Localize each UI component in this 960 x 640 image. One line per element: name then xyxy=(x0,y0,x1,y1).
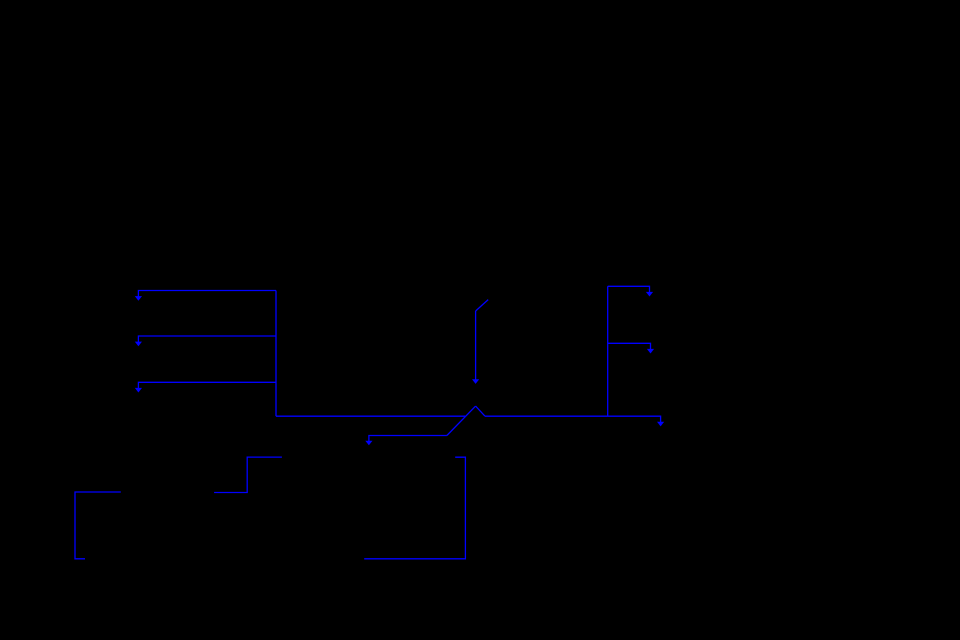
wire right branch 1 xyxy=(608,286,650,292)
arrowhead middle vertical xyxy=(472,379,479,384)
wire hump right leg xyxy=(476,406,485,416)
wire bottom trunk right xyxy=(485,416,661,422)
wire right trunk vertical xyxy=(607,286,609,416)
wire sub branch xyxy=(369,436,447,442)
wire right branch 2 xyxy=(608,343,651,349)
wire bottom trunk left xyxy=(276,415,465,417)
wire left branch 2 xyxy=(138,336,276,342)
arrowhead left branch 1 xyxy=(135,296,142,301)
wire middle vertical xyxy=(475,311,477,380)
arrowhead left branch 2 xyxy=(135,342,142,347)
wire rising diagonal xyxy=(447,406,476,435)
wire left trunk vertical xyxy=(275,291,277,417)
wire staircase xyxy=(214,457,282,492)
wire middle diagonal stub xyxy=(476,300,489,311)
arrowhead right branch 1 xyxy=(646,292,653,297)
arrowhead bottom trunk right xyxy=(657,422,664,427)
arrowhead left branch 3 xyxy=(135,388,142,393)
wire left branch 3 xyxy=(138,382,276,388)
arrowhead sub branch xyxy=(365,441,372,446)
wire left branch 1 xyxy=(138,291,276,297)
wire lower-middle bracket xyxy=(364,457,465,559)
arrowhead right branch 2 xyxy=(647,349,654,354)
wire lower-left bracket xyxy=(75,492,121,559)
